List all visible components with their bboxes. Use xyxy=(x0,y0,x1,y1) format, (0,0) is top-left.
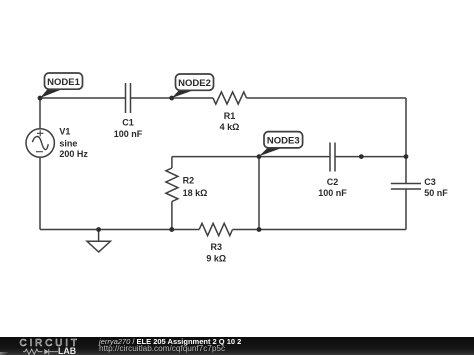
svg-text:18 kΩ: 18 kΩ xyxy=(183,188,208,198)
footer line 2 xyxy=(99,344,225,353)
svg-text:V1: V1 xyxy=(59,126,70,136)
wire left vertical lower: V1 to bottom wire xyxy=(39,157,41,230)
ground xyxy=(87,230,110,253)
wire top: R1 to right corner xyxy=(247,97,407,99)
wire right vertical upper: corner to C3 xyxy=(405,98,407,184)
svg-text:4 kΩ: 4 kΩ xyxy=(220,122,240,132)
node NODE2 dot xyxy=(169,96,174,101)
wire right vertical lower: C3 to bottom wire xyxy=(405,189,407,230)
node: middle wire / right vertical dot xyxy=(404,154,409,159)
node: R2 bottom dot xyxy=(169,227,174,232)
wire R2 vertical leads xyxy=(171,157,173,168)
svg-text:R3: R3 xyxy=(211,242,223,252)
svg-text:R2: R2 xyxy=(183,176,195,186)
V1 sine wave xyxy=(32,137,48,150)
node label NODE3 xyxy=(259,132,303,157)
CircuitLab logo xyxy=(0,337,90,355)
svg-text:200 Hz: 200 Hz xyxy=(59,149,88,159)
V1 minus sign xyxy=(36,151,43,153)
node NODE1 dot xyxy=(38,96,43,101)
resistor R2 xyxy=(166,168,178,202)
svg-text:C1: C1 xyxy=(122,118,134,128)
wire top: C1 to R1 xyxy=(131,97,214,99)
capacitor C2 xyxy=(330,143,335,172)
footer line 1 xyxy=(99,337,241,346)
wire bottom: R3 to right corner xyxy=(233,229,407,231)
footer bar xyxy=(0,337,474,355)
node label NODE1 xyxy=(40,73,83,98)
node NODE3 dot xyxy=(257,154,262,159)
node: ground junction dot xyxy=(96,227,101,232)
capacitor C1 xyxy=(126,83,131,113)
svg-text:R1: R1 xyxy=(224,111,236,121)
capacitor C3 xyxy=(391,184,421,190)
resistor R1 xyxy=(213,92,247,104)
svg-text:100 nF: 100 nF xyxy=(114,129,143,139)
voltage source V1 circle xyxy=(26,129,54,157)
wire middle: R2 top to C2 xyxy=(172,156,330,158)
svg-text:sine: sine xyxy=(59,138,77,148)
svg-text:C2: C2 xyxy=(327,177,339,187)
svg-text:NODE2: NODE2 xyxy=(178,78,211,89)
wire top: NODE1 to C1 xyxy=(40,97,126,99)
footer corner sheen xyxy=(0,352,8,355)
node: middle wire joint dot xyxy=(359,154,364,159)
wire bottom: left section to R3 xyxy=(40,229,199,231)
resistor R3 xyxy=(199,223,232,235)
svg-text:NODE1: NODE1 xyxy=(47,77,80,88)
V1 plus sign xyxy=(37,130,44,136)
svg-text:C3: C3 xyxy=(424,177,436,187)
svg-text:LAB: LAB xyxy=(58,346,76,355)
svg-text:100 nF: 100 nF xyxy=(318,188,347,198)
svg-text:9 kΩ: 9 kΩ xyxy=(206,253,226,263)
wire left vertical upper: NODE1 to V1 xyxy=(39,98,41,129)
node label NODE2 xyxy=(172,74,214,98)
node: NODE3 bottom dot xyxy=(257,227,262,232)
wire NODE3 vertical xyxy=(258,157,260,230)
svg-text:NODE3: NODE3 xyxy=(267,136,300,147)
wire middle: C2 to right vertical xyxy=(335,156,406,158)
svg-text:50 nF: 50 nF xyxy=(424,188,448,198)
